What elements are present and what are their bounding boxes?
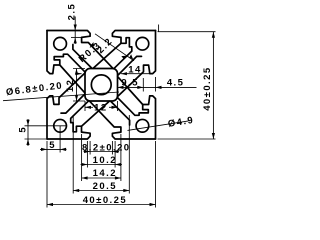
svg-text:5: 5 (18, 126, 29, 133)
R0.3 leader (90, 43, 94, 48)
thin extension + dimension lines (3, 17, 216, 208)
arrows left 5 (26, 120, 29, 126)
svg-text:2.5: 2.5 (66, 3, 77, 21)
arrows 12 vertical (75, 69, 78, 75)
left 5 dim line (27, 119, 29, 146)
svg-text:20.5: 20.5 (93, 181, 117, 192)
arrows 8.2 (outside) (84, 150, 90, 153)
left 5 ext line (25, 125, 68, 127)
svg-text:4.5: 4.5 (167, 77, 185, 88)
svg-text:10.2: 10.2 (93, 155, 117, 166)
center core (85, 69, 118, 102)
arrows 40 bottom (inside) (47, 203, 53, 206)
dim line 10.2 (81, 164, 123, 166)
arrowheads (26, 25, 215, 207)
dim line 8.2 (84, 151, 120, 153)
arrows 2.5 (74, 25, 77, 31)
9.5 / 4.5 dim line (118, 86, 197, 88)
top T-slot (47, 31, 156, 69)
center hole Ø6.8 (91, 75, 111, 95)
svg-text:40±0.25: 40±0.25 (202, 66, 213, 110)
Ø4.9 leader (128, 121, 189, 130)
svg-text:40±0.25: 40±0.25 (83, 195, 127, 206)
4.5 ext lines (143, 77, 155, 92)
corner hole top-right (136, 37, 149, 50)
dim line 14.2 (82, 177, 121, 179)
2.5 dim line (74, 17, 76, 45)
arrows 20.5 (inside) (73, 189, 79, 192)
arrows 12 horizontal (85, 106, 91, 109)
svg-text:12: 12 (94, 103, 107, 114)
corner hole top-left (54, 37, 67, 50)
arrows right 40 (212, 32, 215, 38)
bottom 5 dim line (40, 148, 67, 150)
ext lines bottom ladder (90, 141, 112, 155)
svg-text:12: 12 (65, 79, 76, 92)
svg-text:8.2±0.20: 8.2±0.20 (82, 142, 131, 153)
right 40 dim line (159, 25, 214, 140)
svg-text:5: 5 (49, 140, 56, 151)
Ø6.8 leader (3, 92, 119, 101)
arrow R0.3 (90, 43, 93, 47)
arrows 14.2 (inside) (82, 176, 88, 179)
14 dim line (76, 73, 153, 75)
right T-slot (117, 31, 155, 140)
right 40 ext lines (158, 32, 216, 139)
svg-text:9.5: 9.5 (121, 77, 139, 88)
left T-slot (47, 31, 85, 140)
arrows bottom 5 (41, 148, 47, 151)
arrows 9.5 / 4.5 (118, 86, 124, 89)
arrows 10.2 (outside) (81, 163, 87, 166)
left 5 bottom ext line (25, 138, 47, 140)
dim line 40 bottom (47, 204, 156, 206)
svg-text:14.2: 14.2 (93, 168, 117, 179)
arrows 2.2 (121, 56, 127, 59)
2.2 dim line (95, 34, 134, 61)
12 vertical dim line + ext (73, 69, 85, 102)
12 horizontal dim line + ext (85, 101, 118, 111)
corner hole bottom-left (54, 119, 67, 132)
corner hole bottom-right (136, 119, 149, 132)
bottom T-slot (47, 101, 156, 139)
2.5 ext line (71, 36, 82, 38)
svg-text:14: 14 (128, 64, 141, 75)
bottom 5 ext line (59, 126, 61, 153)
dim line 20.5 (73, 190, 129, 192)
arrows 14 (121, 72, 127, 75)
